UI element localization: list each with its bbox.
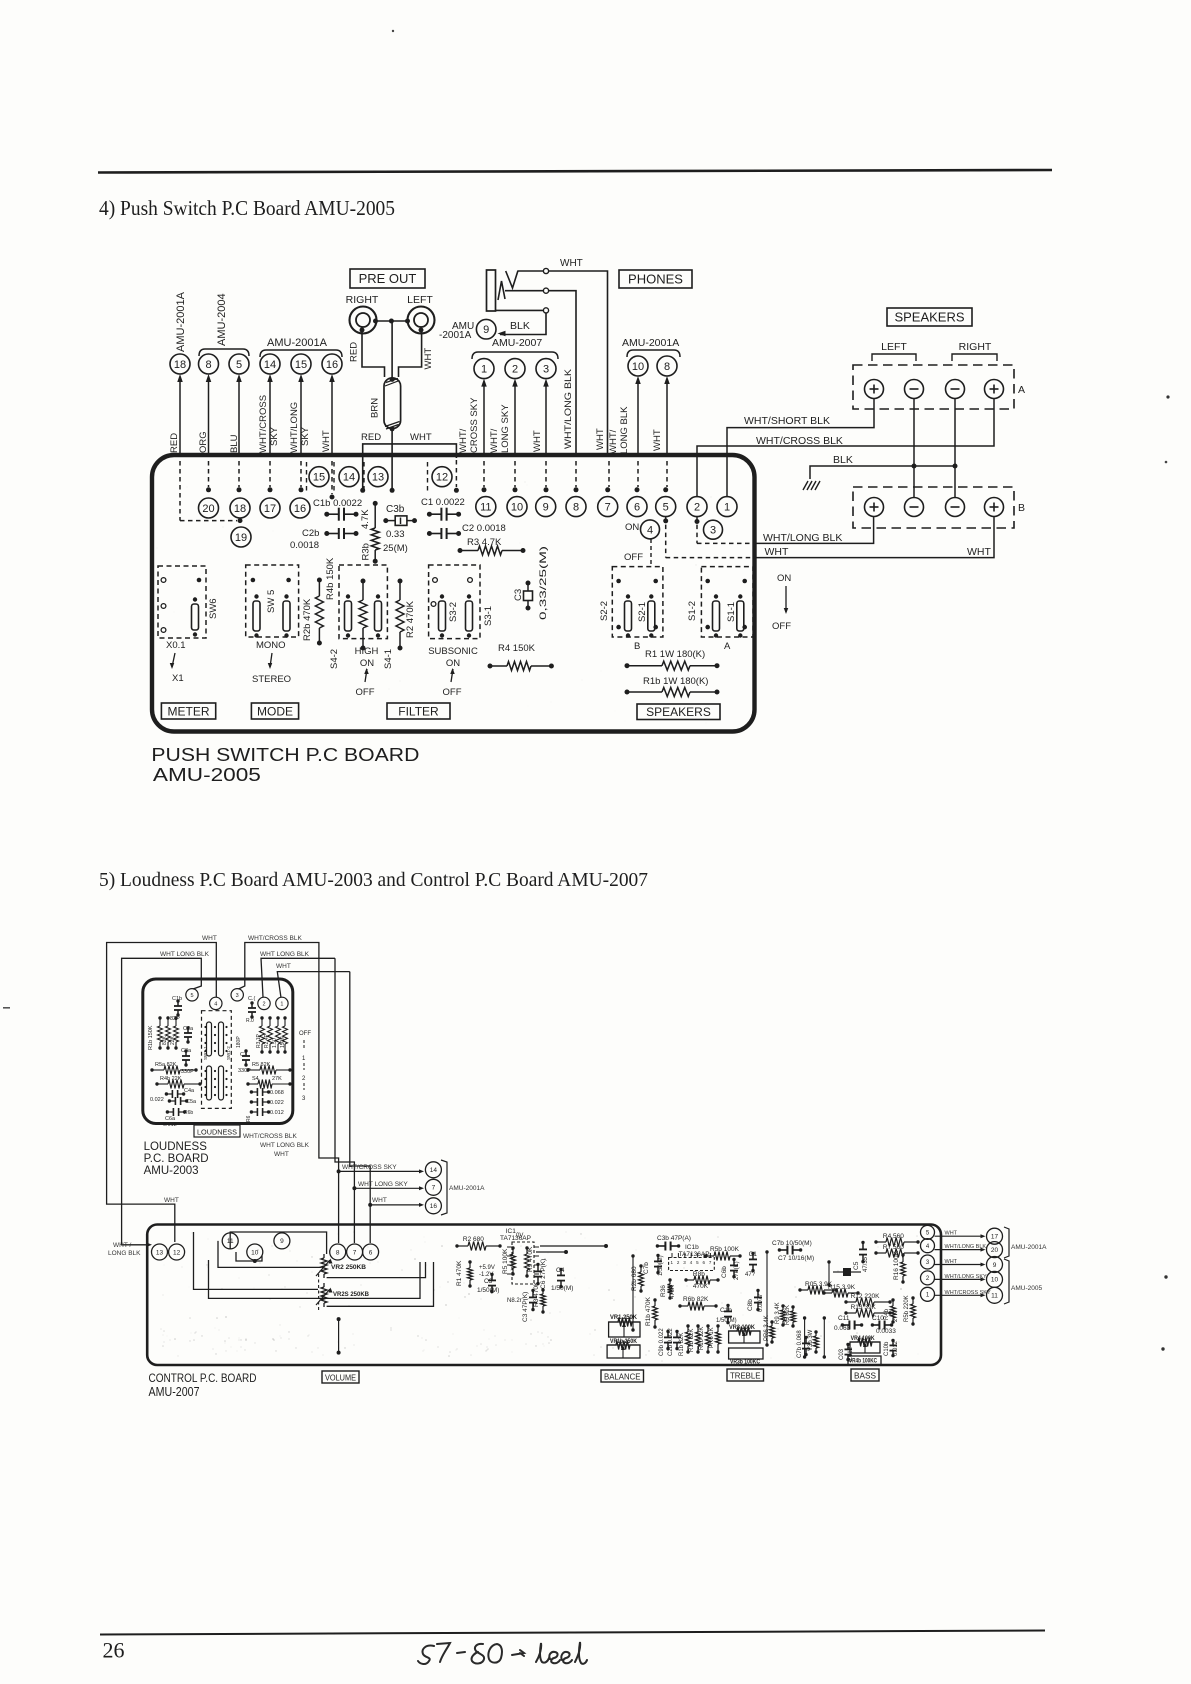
label box FILTER bbox=[387, 703, 450, 719]
svg-text:1.50: 1.50 bbox=[272, 1038, 278, 1048]
svg-text:1: 1 bbox=[481, 364, 487, 376]
svg-text:PRE OUT: PRE OUT bbox=[359, 271, 417, 286]
wire nest to volume pot bbox=[230, 1232, 326, 1254]
svg-text:AMU-2007: AMU-2007 bbox=[149, 1385, 200, 1399]
svg-text:R1b 150K: R1b 150K bbox=[148, 1025, 154, 1050]
pin 3 (loudness) bbox=[231, 989, 243, 1001]
svg-text:WHT: WHT bbox=[202, 935, 217, 942]
resistor inside S4 bbox=[362, 581, 364, 600]
svg-text:RED: RED bbox=[361, 432, 381, 443]
svg-text:10: 10 bbox=[991, 1277, 999, 1284]
connector pin 18 (AMU-2001A) bbox=[170, 354, 190, 374]
wire vertical bus 3 bbox=[828, 1262, 830, 1285]
wire BLK ground bus bbox=[810, 466, 955, 479]
svg-text:OFF: OFF bbox=[772, 621, 791, 632]
svg-text:WHT: WHT bbox=[164, 1197, 179, 1204]
bracket AMU-2001A (right of pins) bbox=[441, 1160, 447, 1215]
terminal B +left bbox=[865, 498, 884, 517]
svg-text:C7 10/16(M): C7 10/16(M) bbox=[778, 1255, 814, 1262]
resistor R2b (loudness) bbox=[167, 1018, 169, 1026]
connector pin 2 (AMU-2007) bbox=[505, 359, 525, 379]
svg-text:WHT: WHT bbox=[967, 546, 991, 558]
svg-text:C11: C11 bbox=[838, 1315, 850, 1322]
svg-text:16: 16 bbox=[430, 1203, 438, 1210]
wire WHT to pin 9 bbox=[935, 1264, 983, 1266]
connector pin 3 (AMU-2007) bbox=[536, 359, 556, 379]
board outline LOUDNESS P.C. BOARD AMU-2003 bbox=[143, 979, 293, 1124]
wire cable core bbox=[391, 321, 393, 378]
svg-text:WHT/LONG BLK: WHT/LONG BLK bbox=[945, 1244, 987, 1250]
svg-text:BLK: BLK bbox=[833, 454, 853, 466]
wire WHT/LONG BLK to pin 20 bbox=[935, 1249, 983, 1251]
pin 8 (board) bbox=[566, 497, 586, 517]
svg-text:PUSH SWITCH P.C BOARD: PUSH SWITCH P.C BOARD bbox=[151, 744, 419, 765]
svg-text:R1 470K: R1 470K bbox=[456, 1260, 463, 1286]
svg-text:MODE: MODE bbox=[257, 704, 293, 718]
bracket stub left of pin 12 bbox=[427, 462, 429, 492]
phone jack tip contact bbox=[506, 271, 518, 289]
svg-text:A: A bbox=[724, 641, 731, 652]
wire WHT LONG BLK loudness pin5 loop bbox=[122, 958, 202, 1245]
svg-text:0.012: 0.012 bbox=[270, 1110, 284, 1116]
svg-text:5: 5 bbox=[190, 993, 193, 999]
wire vertical bus 5 bbox=[823, 1318, 825, 1357]
wire WHT from tip bbox=[549, 271, 608, 457]
wire WHT/LONG BLK (pin 2 bus to B+) bbox=[695, 519, 700, 524]
wire tip contact to terminal bbox=[518, 270, 543, 272]
connector pin 8 (AMU-2004) bbox=[199, 354, 219, 374]
svg-text:14: 14 bbox=[264, 359, 276, 371]
svg-text:R2b 470K: R2b 470K bbox=[302, 598, 313, 641]
wire WHT/LONG SKY to pin 15 bbox=[300, 381, 302, 457]
svg-text:SW1-2: SW1-2 bbox=[226, 1046, 231, 1060]
svg-text:R3 1P: R3 1P bbox=[256, 1033, 262, 1048]
speaker terminal box B bbox=[853, 487, 1014, 528]
svg-text:WHT LONG BLK: WHT LONG BLK bbox=[260, 1142, 310, 1149]
arrow to OFF bbox=[365, 669, 367, 682]
svg-text:LEFT: LEFT bbox=[407, 294, 433, 306]
svg-text:8: 8 bbox=[336, 1249, 340, 1256]
phone jack body bbox=[487, 270, 496, 311]
capacitor C4a (loudness) bbox=[166, 1093, 172, 1095]
svg-text:CONTROL P.C. BOARD: CONTROL P.C. BOARD bbox=[149, 1371, 257, 1385]
connector pin 11 (AMU-2005) bbox=[987, 1287, 1003, 1303]
pin 10 (board) bbox=[507, 497, 527, 517]
svg-text:S1-1: S1-1 bbox=[726, 602, 737, 622]
wire lead dashed to pin 16 bbox=[300, 461, 302, 487]
svg-text:S3-1: S3-1 bbox=[483, 606, 494, 626]
svg-text:ON: ON bbox=[777, 573, 791, 584]
pin 19 (board) bbox=[231, 527, 251, 547]
terminal B -left bbox=[905, 498, 924, 517]
wire lead ORG dashed bbox=[208, 461, 210, 487]
svg-text:7: 7 bbox=[432, 1185, 436, 1192]
svg-text:WHT: WHT bbox=[410, 432, 432, 443]
wire WHT to pin 8 bbox=[666, 383, 668, 457]
svg-text:N8.2r: N8.2r bbox=[507, 1298, 522, 1304]
label box METER bbox=[161, 703, 215, 719]
svg-text:WHT/CROSS BLK: WHT/CROSS BLK bbox=[248, 935, 302, 942]
wire WHT/SHORT BLK (pin 1 to A+) bbox=[727, 399, 874, 497]
svg-text:C4a: C4a bbox=[184, 1088, 195, 1094]
svg-text:11: 11 bbox=[480, 502, 491, 514]
connector pin 1 (AMU-2007) bbox=[474, 359, 494, 379]
svg-text:8: 8 bbox=[664, 361, 670, 373]
svg-text:6: 6 bbox=[369, 1249, 373, 1256]
svg-text:0.0077: 0.0077 bbox=[758, 1293, 764, 1312]
bottom rule bbox=[100, 1631, 1045, 1635]
pin 20 (board) bbox=[199, 498, 219, 518]
pin 11 (board) bbox=[476, 497, 496, 517]
terminal A -right bbox=[946, 380, 965, 399]
svg-text:0.068: 0.068 bbox=[834, 1325, 851, 1332]
svg-text:C.(: C.( bbox=[248, 996, 256, 1002]
resistor R3b (loudness) bbox=[175, 1018, 177, 1026]
svg-text:R5 82K: R5 82K bbox=[785, 1305, 791, 1325]
potentiometer VR2 250KB bbox=[323, 1254, 325, 1258]
svg-text:R36: R36 bbox=[660, 1285, 667, 1297]
brace AMU-2007 group bbox=[472, 352, 558, 359]
connector pin 16 (AMU-2001A) bbox=[322, 354, 342, 374]
svg-text:AMU-2003: AMU-2003 bbox=[144, 1165, 199, 1177]
svg-text:SKY: SKY bbox=[269, 426, 280, 446]
svg-text:SUBSONIC: SUBSONIC bbox=[428, 646, 478, 657]
wire wiper dashed bbox=[318, 1274, 320, 1310]
pin 8 (control) bbox=[330, 1244, 346, 1260]
wire stub with dots bbox=[338, 1319, 340, 1353]
pin 6 (control) bbox=[363, 1244, 379, 1260]
contact terminal circles bbox=[543, 268, 548, 273]
svg-text:ON: ON bbox=[446, 658, 460, 669]
svg-text:R1b 82K: R1b 82K bbox=[679, 1333, 685, 1356]
svg-text:WHT/: WHT/ bbox=[458, 428, 469, 453]
potentiometer VR3b 100KC bbox=[729, 1348, 763, 1359]
svg-text:WHT: WHT bbox=[945, 1259, 958, 1265]
svg-text:S4: S4 bbox=[252, 1076, 259, 1082]
svg-text:17: 17 bbox=[991, 1234, 999, 1241]
pin 11 (control) bbox=[222, 1233, 238, 1249]
svg-text:14: 14 bbox=[430, 1167, 438, 1174]
brace AMU-2001A phones group bbox=[627, 350, 680, 357]
svg-text:27P(K): 27P(K) bbox=[734, 1261, 740, 1280]
svg-text:C2b: C2b bbox=[302, 528, 319, 539]
svg-text:-1.2V: -1.2V bbox=[479, 1272, 493, 1278]
wire WHT/LONG SKY to pin 2 bbox=[514, 386, 516, 457]
wire WHT loudness pin4 loop bbox=[107, 943, 217, 1243]
svg-text:10: 10 bbox=[251, 1249, 259, 1256]
wire WHT (pin 5 bus to B+right) bbox=[663, 518, 668, 523]
svg-text:WHT/: WHT/ bbox=[489, 428, 500, 453]
svg-text:WHT: WHT bbox=[595, 428, 606, 450]
svg-text:1/50(M): 1/50(M) bbox=[658, 1255, 664, 1276]
bracket AMU-2005 (control out) bbox=[1004, 1259, 1009, 1304]
label box SPEAKERS (board) bbox=[637, 704, 720, 720]
svg-text:9: 9 bbox=[993, 1262, 997, 1269]
RCA jack LEFT bbox=[408, 307, 435, 334]
svg-text:PHONES: PHONES bbox=[628, 272, 683, 287]
svg-text:R6b: R6b bbox=[184, 1110, 193, 1116]
svg-text:C6 27P(K): C6 27P(K) bbox=[540, 1259, 547, 1289]
svg-text:WHT/LONG BLK: WHT/LONG BLK bbox=[563, 368, 574, 449]
svg-text:WHT: WHT bbox=[423, 348, 434, 370]
svg-text:C3: C3 bbox=[513, 589, 524, 601]
svg-text:5: 5 bbox=[663, 502, 669, 514]
svg-text:4: 4 bbox=[214, 1001, 217, 1007]
svg-text:C3b: C3b bbox=[386, 504, 405, 515]
label box BALANCE bbox=[601, 1370, 644, 1382]
pin 5 (control out) bbox=[921, 1225, 935, 1239]
svg-text:AMU-2005: AMU-2005 bbox=[153, 764, 261, 785]
pin 2 (board) bbox=[687, 497, 707, 517]
svg-text:7: 7 bbox=[605, 502, 611, 514]
wire sleeve to pin 9 bbox=[500, 313, 546, 335]
bracket stubs around pins 15 14 13 bbox=[306, 462, 308, 492]
svg-text:9: 9 bbox=[543, 502, 549, 514]
wire WHT to pin 3 bbox=[545, 386, 547, 457]
bracket under RIGHT bbox=[952, 354, 997, 361]
wire to AMU-2001A pin 7 bbox=[352, 1186, 356, 1190]
svg-text:2: 2 bbox=[512, 364, 518, 376]
svg-text:WHT LONG BLK: WHT LONG BLK bbox=[160, 951, 210, 958]
svg-text:AMU-2001A: AMU-2001A bbox=[622, 337, 679, 349]
svg-text:OFF: OFF bbox=[299, 1031, 311, 1037]
pin 15 (board) bbox=[309, 467, 329, 487]
pin 5 (board) bbox=[656, 497, 676, 517]
phone jack sleeve contact bbox=[496, 309, 544, 311]
wire from ring bbox=[549, 291, 576, 457]
svg-text:C3b 47P(A): C3b 47P(A) bbox=[657, 1235, 691, 1242]
connector pin 17 (AMU-2001A) bbox=[987, 1228, 1003, 1244]
svg-text:WHT: WHT bbox=[945, 1231, 958, 1237]
capacitor C6a 0.012 (loudness) bbox=[167, 1111, 173, 1113]
svg-text:HIGH: HIGH bbox=[355, 646, 379, 657]
svg-text:9: 9 bbox=[483, 324, 489, 336]
svg-text:VR2 250KB: VR2 250KB bbox=[331, 1264, 366, 1271]
svg-text:27K: 27K bbox=[272, 1076, 282, 1082]
svg-text:VOLUME: VOLUME bbox=[325, 1374, 356, 1383]
svg-text:13: 13 bbox=[372, 472, 384, 484]
svg-text:BRN: BRN bbox=[370, 398, 381, 418]
arrow X0.1 to X1 bbox=[172, 653, 175, 667]
wire lead dashed to pin 11 bbox=[483, 461, 485, 487]
wire vertical bus 4 bbox=[804, 1318, 806, 1357]
label box TREBLE bbox=[727, 1369, 764, 1381]
svg-text:+5.9V: +5.9V bbox=[479, 1265, 495, 1271]
svg-text:12: 12 bbox=[436, 472, 448, 484]
svg-text:1/50(M): 1/50(M) bbox=[716, 1318, 737, 1324]
svg-text:-2001A: -2001A bbox=[439, 330, 472, 341]
svg-text:20: 20 bbox=[202, 503, 214, 515]
svg-text:R.0: R.0 bbox=[246, 1018, 254, 1024]
svg-text:13: 13 bbox=[156, 1249, 164, 1256]
switch S2 (SPEAKERS B) bbox=[612, 567, 663, 637]
board outline CONTROL P.C. BOARD AMU-2007 bbox=[147, 1225, 941, 1366]
svg-text:OFF: OFF bbox=[443, 687, 462, 698]
wire pin10 jumper bbox=[236, 1252, 262, 1261]
svg-text:WHT/LONG SKY: WHT/LONG SKY bbox=[945, 1274, 988, 1280]
wire lead BLU dashed bbox=[238, 461, 240, 487]
switch SW5 (MODE) bbox=[246, 565, 299, 637]
svg-text:ON: ON bbox=[360, 658, 374, 669]
svg-text:0.012: 0.012 bbox=[893, 1340, 899, 1356]
label box SPEAKERS bbox=[887, 308, 972, 326]
wire WHT/CROSS BLK loudness pin3 bbox=[239, 943, 339, 1241]
svg-text:WHT LONG BLK: WHT LONG BLK bbox=[260, 951, 310, 958]
svg-text:AMU-2001A: AMU-2001A bbox=[267, 337, 328, 349]
wire to AMU-2001A pin 16 bbox=[368, 1203, 372, 1207]
svg-text:CROSS SKY: CROSS SKY bbox=[469, 397, 480, 453]
svg-text:SW6: SW6 bbox=[208, 598, 219, 619]
resistor network (loudness right) bbox=[261, 1018, 263, 1026]
connector pin 9 (AMU-2005) bbox=[987, 1257, 1003, 1273]
connector pin 8 bbox=[657, 356, 677, 376]
label box LOUDNESS bbox=[194, 1125, 240, 1137]
label box MODE bbox=[251, 703, 298, 719]
svg-text:VR4b 100KC: VR4b 100KC bbox=[849, 1359, 878, 1365]
pin 7 (board) bbox=[598, 497, 618, 517]
switch S3 (SUBSONIC filter) bbox=[429, 565, 480, 639]
svg-text:SW 5: SW 5 bbox=[266, 590, 277, 613]
svg-text:14: 14 bbox=[343, 472, 355, 484]
svg-text:WHT: WHT bbox=[274, 1151, 289, 1158]
connector pin 20 (AMU-2001A) bbox=[987, 1242, 1003, 1258]
svg-text:AMU-2001A: AMU-2001A bbox=[449, 1185, 485, 1192]
terminal B -right bbox=[946, 498, 965, 517]
svg-text:WHT: WHT bbox=[765, 546, 789, 558]
svg-text:0.0018: 0.0018 bbox=[290, 540, 319, 551]
wire lead WHT dashed bbox=[331, 461, 333, 494]
svg-text:17: 17 bbox=[264, 503, 276, 515]
svg-text:WHT: WHT bbox=[532, 430, 543, 452]
svg-text:18: 18 bbox=[234, 503, 246, 515]
wire lead dashed to pin 9 bbox=[545, 461, 547, 487]
wire ORG to pin 8 bbox=[208, 381, 210, 457]
svg-text:6: 6 bbox=[634, 502, 640, 514]
svg-text:R2 4P: R2 4P bbox=[264, 1033, 270, 1048]
svg-text:15: 15 bbox=[295, 359, 307, 371]
svg-text:2: 2 bbox=[262, 1001, 265, 1007]
svg-text:R6b 82K: R6b 82K bbox=[683, 1296, 709, 1303]
svg-text:8: 8 bbox=[205, 359, 211, 371]
svg-text:RED: RED bbox=[349, 342, 360, 362]
wire lead dashed to pin 6 bbox=[637, 461, 639, 487]
svg-text:LOUDNESS: LOUDNESS bbox=[144, 1141, 208, 1153]
potentiometer VR4b 100KC bbox=[848, 1356, 881, 1365]
svg-text:C1 0.0022: C1 0.0022 bbox=[421, 497, 465, 508]
svg-text:5) Loudness P.C Board AMU-2003: 5) Loudness P.C Board AMU-2003 and Contr… bbox=[99, 869, 648, 891]
capacitor column 0.068 / 0.022 / 0.012 (loudness right) bbox=[251, 1091, 257, 1093]
svg-text:8: 8 bbox=[573, 502, 579, 514]
pin 17 (board) bbox=[260, 498, 280, 518]
svg-text:0V: 0V bbox=[516, 1233, 523, 1239]
svg-text:150K: 150K bbox=[280, 1036, 286, 1048]
svg-text:LONG BLK: LONG BLK bbox=[619, 406, 630, 454]
svg-text:2: 2 bbox=[694, 502, 700, 514]
svg-text:R1b 1W 180(K): R1b 1W 180(K) bbox=[643, 676, 708, 687]
pin 13 (control) bbox=[152, 1244, 168, 1260]
wire lead dashed to pin 5 bbox=[666, 461, 668, 487]
pin 12 (board) bbox=[432, 467, 452, 487]
svg-text:WHT/CROSS: WHT/CROSS bbox=[258, 395, 269, 453]
svg-text:0.022: 0.022 bbox=[150, 1097, 164, 1103]
svg-text:R6: R6 bbox=[246, 1115, 252, 1122]
terminal B +right bbox=[985, 498, 1004, 517]
connector pin 9 (AMU-2001A) bbox=[476, 319, 496, 339]
pin 3 (control out) bbox=[921, 1255, 935, 1269]
resistor R2 470K bbox=[399, 581, 401, 600]
svg-text:47/35: 47/35 bbox=[863, 1256, 869, 1272]
wire WHT branch into board bbox=[392, 444, 456, 458]
svg-text:3: 3 bbox=[236, 993, 239, 999]
svg-text:VR3b 100KC: VR3b 100KC bbox=[730, 1360, 761, 1366]
switch S4 (HIGH filter) bbox=[339, 565, 387, 639]
svg-text:LONG SKY: LONG SKY bbox=[500, 404, 511, 453]
wire lead dashed to pin 7 bbox=[608, 461, 610, 487]
svg-text:16: 16 bbox=[294, 503, 306, 515]
svg-text:47?: 47? bbox=[745, 1272, 756, 1278]
pin 18 (board) bbox=[230, 498, 250, 518]
svg-text:IC1: IC1 bbox=[506, 1228, 517, 1235]
svg-text:WHT: WHT bbox=[372, 1197, 387, 1204]
switch SW1 (loudness, dashed box) bbox=[202, 1011, 232, 1109]
wire WHT to pin 17 bbox=[935, 1235, 983, 1237]
svg-text:C10: C10 bbox=[872, 1315, 884, 1322]
svg-text:4) Push Switch P.C Board AMU-2: 4) Push Switch P.C Board AMU-2005 bbox=[99, 196, 395, 220]
wire lead dashed to pin 8 bbox=[575, 461, 577, 487]
wire WHT to pin 16 bbox=[331, 381, 333, 457]
connector pin 14 (AMU-2001A right) bbox=[425, 1162, 441, 1178]
shielded cable (BRN) bbox=[384, 378, 401, 429]
svg-text:A: A bbox=[1018, 384, 1025, 396]
svg-text:3: 3 bbox=[710, 525, 716, 537]
svg-text:27K: 27K bbox=[893, 1311, 899, 1322]
top rule bbox=[98, 170, 1052, 173]
pin 1 (control out) bbox=[921, 1287, 935, 1301]
wire vertical bus 1 bbox=[632, 1256, 634, 1330]
wire WHT/LONG BLK to pin 10 bbox=[637, 383, 639, 457]
pin 4 (board) bbox=[641, 520, 660, 539]
terminal A +right bbox=[985, 380, 1004, 399]
pin 12 (control) bbox=[169, 1244, 185, 1260]
svg-text:R3 470K: R3 470K bbox=[533, 1281, 540, 1307]
svg-text:0.33: 0.33 bbox=[386, 529, 405, 540]
svg-text:WHT/LONG BLK: WHT/LONG BLK bbox=[763, 532, 842, 544]
svg-text:LOUDNESS: LOUDNESS bbox=[197, 1128, 237, 1137]
svg-text:VR2S 250KB: VR2S 250KB bbox=[333, 1291, 369, 1298]
svg-text:X0.1: X0.1 bbox=[166, 640, 186, 651]
svg-text:S2-2: S2-2 bbox=[599, 601, 610, 621]
svg-text:RIGHT: RIGHT bbox=[959, 341, 992, 353]
svg-text:180P: 180P bbox=[236, 1036, 242, 1048]
svg-text:1/50(M): 1/50(M) bbox=[477, 1287, 499, 1294]
svg-text:AMU-2007: AMU-2007 bbox=[492, 337, 542, 349]
connector pin 10 (AMU-2005) bbox=[987, 1271, 1003, 1287]
wire to AMU-2001A pin 14 bbox=[337, 1169, 341, 1173]
svg-text:25(M): 25(M) bbox=[383, 543, 408, 554]
svg-text:S4-2: S4-2 bbox=[329, 649, 340, 669]
board outline PUSH SWITCH P.C BOARD bbox=[152, 455, 755, 732]
wire ring contact to terminal bbox=[505, 290, 543, 292]
svg-text:AMU-2005: AMU-2005 bbox=[1011, 1285, 1042, 1292]
svg-text:R10 12K: R10 12K bbox=[699, 1327, 705, 1350]
svg-text:RIGHT: RIGHT bbox=[346, 294, 379, 306]
wire IC out bbox=[536, 1251, 566, 1253]
wire lead dashed to pin 10 bbox=[514, 461, 516, 487]
wire RIGHT jack down bbox=[362, 330, 385, 377]
pin 2 (loudness) bbox=[258, 997, 270, 1009]
svg-text:BLU: BLU bbox=[229, 434, 240, 453]
connector pin 5 (AMU-2004) bbox=[229, 354, 249, 374]
